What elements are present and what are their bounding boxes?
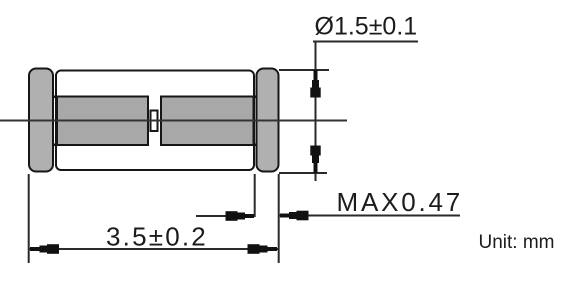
svg-text:Unit: mm: Unit: mm: [479, 232, 555, 253]
svg-text:Ø1.5±0.1: Ø1.5±0.1: [315, 13, 418, 41]
svg-text:MAX0.47: MAX0.47: [337, 187, 464, 217]
svg-text:3.5±0.2: 3.5±0.2: [106, 222, 208, 252]
